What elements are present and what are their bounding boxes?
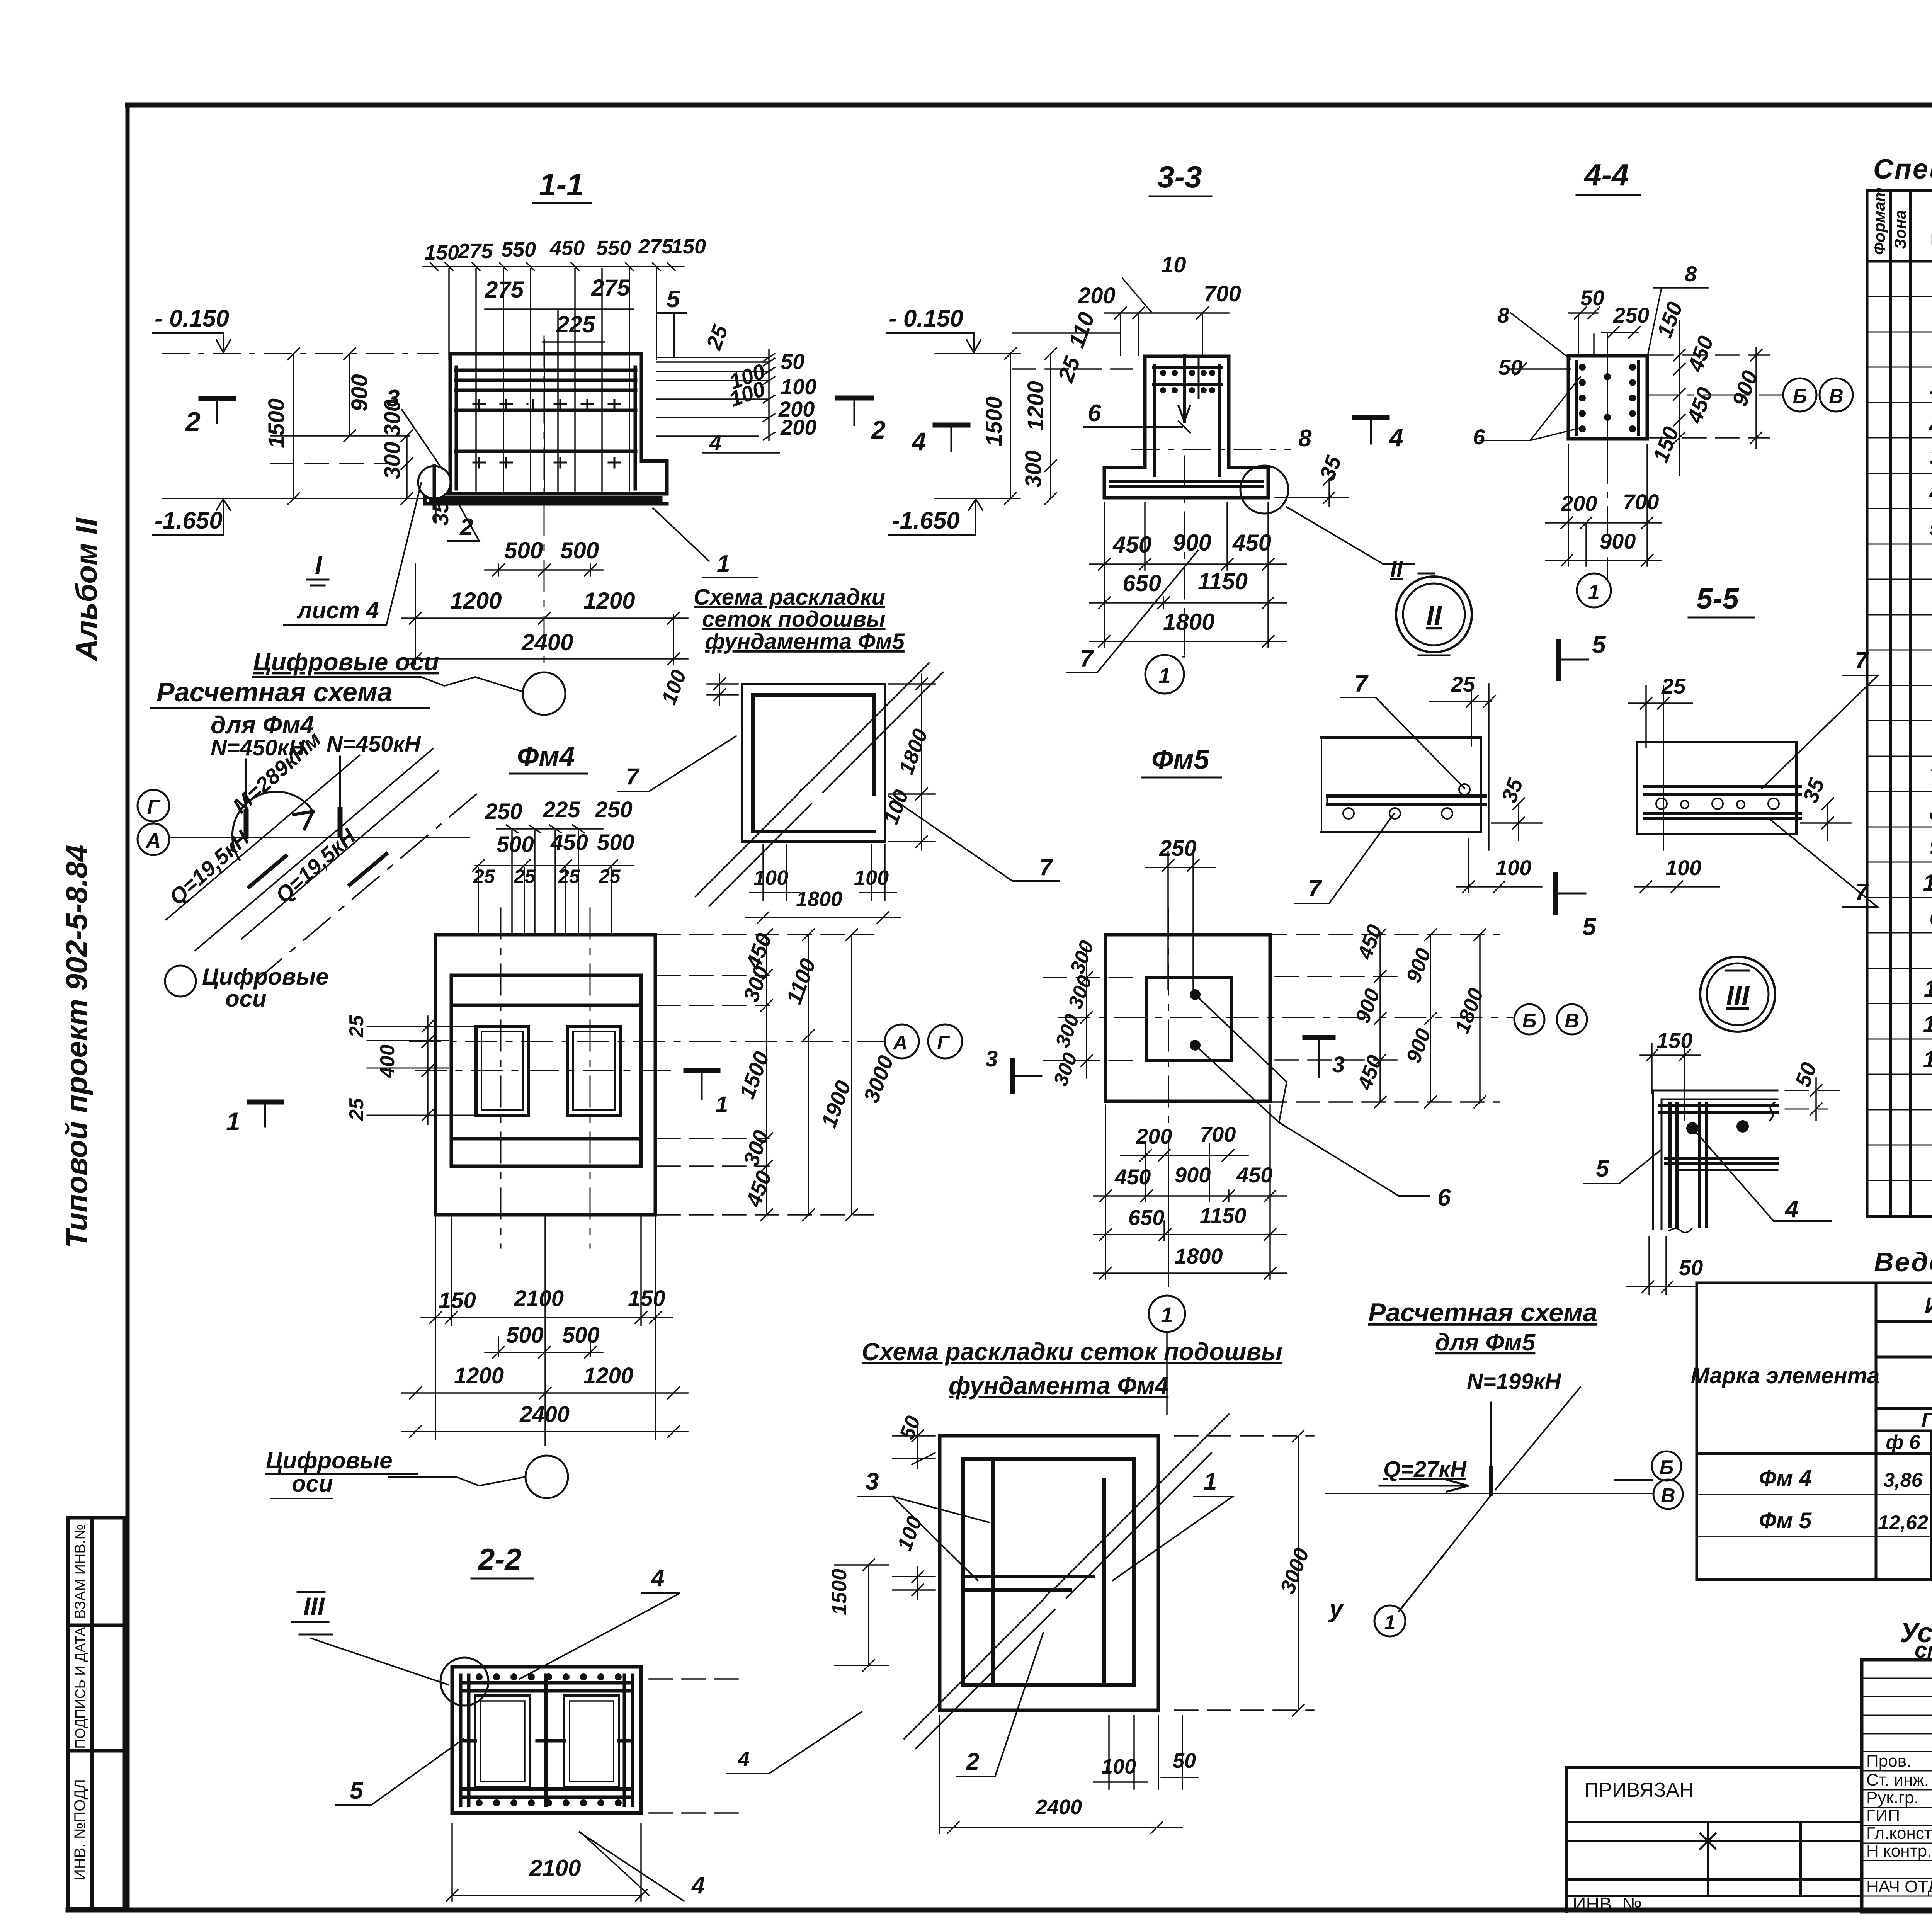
T1 marker bbox=[686, 1068, 718, 1073]
svg-text:4: 4 bbox=[911, 427, 926, 456]
svg-text:8: 8 bbox=[1685, 262, 1697, 286]
dims above bbox=[1473, 262, 1762, 466]
svg-text:1: 1 bbox=[1929, 373, 1932, 399]
svg-text:700: 700 bbox=[1204, 281, 1241, 306]
body bbox=[1568, 356, 1647, 439]
svg-text:4: 4 bbox=[1784, 1196, 1798, 1223]
svg-text:700: 700 bbox=[1200, 1122, 1236, 1146]
bottom dims bbox=[1114, 1122, 1272, 1268]
svg-text:6: 6 bbox=[1088, 400, 1101, 427]
break squiggles bbox=[1770, 1102, 1775, 1121]
svg-text:5-5: 5-5 bbox=[1696, 582, 1740, 615]
svg-text:Гл.конст.: Гл.конст. bbox=[1866, 1824, 1932, 1843]
svg-text:Цифровые оси: Цифровые оси bbox=[253, 648, 439, 676]
podkolonnik rect bbox=[451, 975, 641, 1166]
level line top bbox=[162, 353, 439, 354]
svg-text:-1.650: -1.650 bbox=[892, 507, 960, 534]
svg-text:500: 500 bbox=[506, 1323, 544, 1348]
svg-text:1500: 1500 bbox=[264, 398, 289, 448]
svg-text:лист 4: лист 4 bbox=[296, 597, 379, 623]
section 4-4 bbox=[1473, 262, 1853, 607]
axis circle 1 below bbox=[1149, 1296, 1185, 1332]
svg-text:50: 50 bbox=[1580, 286, 1604, 310]
marker 5 top bbox=[1556, 641, 1561, 678]
II detail circle on flange right bbox=[1240, 466, 1288, 514]
svg-text:А: А bbox=[145, 829, 161, 852]
svg-text:ГИП: ГИП bbox=[1866, 1806, 1900, 1825]
inner openings bbox=[475, 1696, 530, 1787]
svg-text:1200: 1200 bbox=[583, 588, 635, 614]
svg-text:12,62: 12,62 bbox=[1878, 1512, 1928, 1534]
svg-text:1: 1 bbox=[1204, 1468, 1217, 1495]
svg-text:150: 150 bbox=[628, 1286, 665, 1311]
svg-text:900: 900 bbox=[1600, 529, 1636, 553]
axis circle 1 bbox=[1145, 655, 1184, 694]
section 3-3 bbox=[887, 160, 1414, 694]
svg-text:100: 100 bbox=[1665, 855, 1701, 880]
section 4-4 title block area (between x4050..4750) bbox=[1577, 158, 1640, 195]
svg-text:500: 500 bbox=[504, 537, 543, 563]
center axis bbox=[1184, 456, 1185, 657]
svg-text:Фм 4: Фм 4 bbox=[1759, 1466, 1812, 1491]
svg-text:у: у bbox=[1328, 1594, 1345, 1622]
svg-text:150: 150 bbox=[671, 235, 706, 258]
svg-text:III: III bbox=[1726, 981, 1750, 1012]
svg-text:550: 550 bbox=[501, 238, 536, 261]
svg-text:Б: Б bbox=[1522, 1010, 1537, 1032]
left small dims bbox=[345, 1015, 399, 1121]
svg-text:1800: 1800 bbox=[796, 888, 842, 911]
svg-text:7: 7 bbox=[1929, 764, 1932, 789]
svg-text:50: 50 bbox=[1173, 1749, 1196, 1772]
inner square bbox=[1146, 978, 1231, 1060]
svg-text:9: 9 bbox=[1929, 834, 1932, 860]
svg-text:Формат: Формат bbox=[1870, 187, 1888, 255]
top dim chain texts bbox=[424, 235, 706, 337]
foundation body section bbox=[425, 354, 667, 504]
svg-text:10: 10 bbox=[1161, 252, 1186, 277]
svg-text:4: 4 bbox=[1929, 480, 1932, 505]
bottom dims bbox=[1561, 490, 1659, 553]
T3 marker bbox=[1305, 1035, 1333, 1040]
axes bbox=[410, 908, 885, 1248]
top dims bbox=[1053, 252, 1241, 386]
svg-text:25: 25 bbox=[473, 866, 495, 887]
axes bbox=[1059, 908, 1513, 1132]
svg-text:5: 5 bbox=[1929, 515, 1932, 541]
detail 5-5 (slab edge, right) bbox=[1629, 647, 1878, 907]
section 1-1 bbox=[153, 167, 816, 715]
svg-text:ВЗАМ ИНВ.№: ВЗАМ ИНВ.№ bbox=[72, 1524, 88, 1619]
svg-text:1: 1 bbox=[1588, 580, 1600, 604]
privyazan box bbox=[1566, 1767, 1862, 1912]
svg-text:1200: 1200 bbox=[454, 1363, 504, 1388]
svg-text:Зона: Зона bbox=[1891, 210, 1909, 249]
bottom dims bbox=[1112, 530, 1271, 635]
svg-text:сеток подошвы: сеток подошвы bbox=[702, 607, 886, 632]
moment arc bbox=[232, 792, 313, 860]
inner mesh panels thick bbox=[963, 1459, 1134, 1685]
svg-text:Ст. инж.: Ст. инж. bbox=[1866, 1770, 1929, 1789]
svg-text:3: 3 bbox=[866, 1468, 879, 1495]
svg-text:Пров.: Пров. bbox=[1866, 1752, 1911, 1770]
svg-text:100: 100 bbox=[753, 866, 788, 889]
svg-text:10: 10 bbox=[1923, 870, 1932, 896]
svg-text:225: 225 bbox=[556, 311, 596, 337]
anchor dots bbox=[1190, 989, 1201, 1000]
svg-text:250: 250 bbox=[595, 797, 633, 822]
svg-text:А: А bbox=[892, 1032, 908, 1054]
svg-text:I: I bbox=[315, 551, 323, 579]
svg-text:3,86: 3,86 bbox=[1883, 1469, 1923, 1492]
rebar columns bbox=[1575, 361, 1578, 435]
svg-text:Изделия арматурные: Изделия арматурные bbox=[1925, 1293, 1932, 1318]
svg-text:6: 6 bbox=[1437, 1184, 1451, 1211]
svg-text:НАЧ ОТД.: НАЧ ОТД. bbox=[1866, 1877, 1932, 1896]
svg-text:150: 150 bbox=[439, 1288, 476, 1313]
svg-text:500: 500 bbox=[562, 1323, 600, 1348]
corner body bbox=[1653, 1090, 1777, 1229]
specification table bbox=[1867, 187, 1932, 1216]
diagonals bbox=[166, 749, 481, 981]
svg-text:1800: 1800 bbox=[1175, 1244, 1223, 1268]
top dims bbox=[473, 797, 634, 887]
svg-text:650: 650 bbox=[1128, 1205, 1164, 1230]
left stamp column boxes bbox=[68, 1518, 124, 1909]
svg-text:1200: 1200 bbox=[583, 1363, 633, 1388]
diagonal break lines bbox=[696, 663, 929, 896]
svg-text:100: 100 bbox=[1495, 855, 1531, 880]
svg-text:Г: Г bbox=[937, 1032, 950, 1054]
circle on corner bbox=[440, 1658, 488, 1706]
svg-text:ПРИВЯЗАН: ПРИВЯЗАН bbox=[1584, 1779, 1694, 1801]
svg-text:250: 250 bbox=[1613, 303, 1649, 327]
marker T2 (right of section 1-1) bbox=[838, 396, 871, 401]
anchor openings bbox=[476, 1026, 529, 1115]
svg-text:ПОДПИСЬ И ДАТА: ПОДПИСЬ И ДАТА bbox=[72, 1627, 88, 1748]
svg-text:225: 225 bbox=[543, 797, 581, 822]
svg-text:Б: Б bbox=[1793, 385, 1807, 408]
svg-text:200: 200 bbox=[1078, 283, 1116, 308]
stamp rotated labels bbox=[71, 1524, 88, 1880]
svg-text:В: В bbox=[1661, 1485, 1675, 1507]
svg-text:900: 900 bbox=[1175, 1163, 1211, 1187]
svg-text:Фм5: Фм5 bbox=[1151, 744, 1209, 775]
svg-text:100: 100 bbox=[1101, 1755, 1136, 1778]
Б В circles bbox=[1514, 1004, 1544, 1034]
у axis letter bbox=[1166, 1333, 1168, 1414]
svg-text:В: В bbox=[1829, 385, 1844, 408]
left dims bbox=[1005, 348, 1056, 504]
body: T-shaped foundation bbox=[1104, 356, 1268, 498]
svg-text:2400: 2400 bbox=[1035, 1796, 1082, 1819]
svg-text:- 0.150: - 0.150 bbox=[889, 305, 963, 332]
расчетная схема для Фм4 bbox=[138, 677, 481, 1012]
diagonal bbox=[904, 1414, 1229, 1739]
svg-text:400: 400 bbox=[376, 1044, 399, 1078]
svg-text:1200: 1200 bbox=[450, 588, 502, 614]
svg-text:3: 3 bbox=[386, 385, 400, 412]
svg-text:для Фм4: для Фм4 bbox=[211, 711, 314, 739]
axis to Б В bbox=[1647, 395, 1783, 396]
Фм5 plan bbox=[1043, 744, 1587, 1332]
svg-text:2: 2 bbox=[1929, 409, 1932, 435]
svg-text:Типовой проект 902-5-8.84: Типовой проект 902-5-8.84 bbox=[60, 845, 94, 1248]
svg-text:200: 200 bbox=[1561, 491, 1597, 515]
svg-text:2400: 2400 bbox=[519, 1402, 570, 1427]
svg-text:6: 6 bbox=[1473, 425, 1485, 449]
svg-text:1: 1 bbox=[1384, 1611, 1396, 1634]
force arrows bbox=[245, 759, 247, 837]
svg-text:450: 450 bbox=[1236, 1163, 1272, 1187]
bottom dims bbox=[439, 1286, 665, 1427]
svg-text:Марка элемента: Марка элемента bbox=[1691, 1363, 1880, 1388]
svg-text:700: 700 bbox=[1623, 490, 1659, 514]
svg-text:200: 200 bbox=[780, 415, 816, 439]
II double circle bbox=[1396, 577, 1472, 652]
svg-text:150: 150 bbox=[424, 241, 459, 264]
marker 1T bottom left bbox=[249, 1100, 281, 1105]
svg-text:12: 12 bbox=[1923, 1011, 1932, 1037]
svg-text:Альбом II: Альбом II bbox=[69, 517, 103, 662]
svg-text:3: 3 bbox=[1929, 444, 1932, 470]
dims bbox=[657, 667, 932, 911]
axis circles Б and В left of vedomost bbox=[1615, 1479, 1652, 1481]
marker T4 (right of 3-3) bbox=[1354, 415, 1387, 420]
svg-text:оси: оси bbox=[225, 986, 267, 1012]
svg-text:ИНВ. №ПОДЛ: ИНВ. №ПОДЛ bbox=[71, 1779, 88, 1880]
svg-text:2100: 2100 bbox=[514, 1286, 564, 1311]
svg-text:-1.650: -1.650 bbox=[155, 507, 223, 534]
rebar in body bbox=[431, 367, 661, 501]
svg-text:II: II bbox=[1426, 600, 1442, 631]
level line bottom bbox=[162, 498, 439, 499]
svg-text:4: 4 bbox=[691, 1872, 705, 1899]
svg-text:25: 25 bbox=[599, 866, 621, 887]
svg-text:5: 5 bbox=[667, 286, 680, 313]
svg-text:1500: 1500 bbox=[981, 396, 1007, 446]
rebar dots rows bbox=[476, 1673, 622, 1806]
svg-text:Расчетная схема: Расчетная схема bbox=[156, 677, 393, 707]
right dim chains bbox=[657, 929, 873, 1221]
extension verticals bbox=[448, 269, 450, 359]
расчетная схема для Фм5 bbox=[1325, 1298, 1652, 1636]
svg-text:450: 450 bbox=[549, 236, 585, 260]
svg-text:900: 900 bbox=[1173, 530, 1211, 556]
detail II (slab edge, left) bbox=[1294, 670, 1542, 903]
svg-text:3-3: 3-3 bbox=[1157, 160, 1202, 194]
leader to II callout bbox=[1287, 507, 1414, 564]
svg-text:250: 250 bbox=[485, 799, 522, 824]
marker 2T left bbox=[201, 396, 234, 401]
svg-text:25: 25 bbox=[1661, 674, 1686, 698]
svg-text:2: 2 bbox=[185, 406, 201, 437]
svg-text:550: 550 bbox=[596, 236, 631, 260]
svg-text:1: 1 bbox=[716, 1092, 728, 1117]
цифровые оси 3 + circle bbox=[266, 1447, 393, 1497]
svg-text:Н контр.: Н контр. bbox=[1866, 1842, 1932, 1861]
svg-text:11: 11 bbox=[1924, 976, 1932, 1002]
svg-text:ф 6: ф 6 bbox=[1886, 1431, 1920, 1454]
svg-text:4: 4 bbox=[738, 1747, 750, 1770]
svg-text:Q=27кН: Q=27кН bbox=[1383, 1457, 1467, 1482]
svg-text:275: 275 bbox=[457, 240, 493, 263]
hatch mesh right of body bbox=[657, 350, 779, 453]
svg-text:4: 4 bbox=[650, 1565, 664, 1592]
svg-text:450: 450 bbox=[1232, 530, 1271, 556]
svg-text:N=450кН: N=450кН bbox=[327, 731, 421, 757]
svg-text:7: 7 bbox=[1039, 854, 1053, 880]
svg-text:7: 7 bbox=[1354, 670, 1369, 697]
svg-text:II: II bbox=[1390, 556, 1403, 582]
svg-text:25: 25 bbox=[345, 1015, 368, 1038]
svg-text:50: 50 bbox=[781, 349, 804, 374]
svg-text:500: 500 bbox=[560, 537, 599, 563]
svg-text:5: 5 bbox=[1596, 1155, 1610, 1182]
svg-text:- 0.150: - 0.150 bbox=[155, 305, 229, 332]
svg-text:Фм4: Фм4 bbox=[517, 741, 575, 772]
svg-text:8: 8 bbox=[1929, 799, 1932, 825]
svg-text:50: 50 bbox=[1498, 355, 1522, 379]
svg-text:8: 8 bbox=[1298, 425, 1312, 452]
svg-text:500: 500 bbox=[497, 832, 534, 857]
схема раскладки сеток подошвы фундамента Фм4 (bottom square) bbox=[726, 1333, 1314, 1833]
svg-text:N=199кН: N=199кН bbox=[1467, 1369, 1561, 1394]
svg-text:6: 6 bbox=[1929, 905, 1932, 931]
svg-text:Цифровые: Цифровые bbox=[266, 1447, 393, 1473]
svg-text:Спецификация монолитных фунда: Спецификация монолитных фундаментов Фм4;… bbox=[1873, 154, 1932, 185]
svg-text:25: 25 bbox=[345, 1098, 368, 1121]
svg-text:2-2: 2-2 bbox=[477, 1542, 522, 1576]
цифровые оси 2 + circle bbox=[165, 966, 196, 997]
svg-text:4: 4 bbox=[1388, 423, 1403, 452]
outer slab rect bbox=[435, 935, 655, 1215]
spec table body text bbox=[1923, 304, 1932, 1143]
svg-text:3: 3 bbox=[985, 1046, 998, 1071]
svg-text:150: 150 bbox=[1656, 1028, 1692, 1053]
svg-text:ИНВ. №: ИНВ. № bbox=[1573, 1894, 1642, 1915]
svg-text:3: 3 bbox=[1332, 1052, 1345, 1077]
svg-text:13: 13 bbox=[1923, 1046, 1932, 1072]
svg-text:50: 50 bbox=[1679, 1255, 1703, 1280]
svg-text:2100: 2100 bbox=[529, 1855, 581, 1881]
dims bbox=[738, 1413, 1313, 1819]
dim lines top bbox=[423, 263, 684, 491]
section 2-2 (bottom left) bbox=[292, 1542, 742, 1901]
svg-text:фундамента Фм5: фундамента Фм5 bbox=[705, 629, 905, 654]
svg-text:Поз.: Поз. bbox=[1928, 208, 1932, 247]
svg-text:5: 5 bbox=[350, 1777, 364, 1804]
svg-text:2: 2 bbox=[966, 1748, 979, 1775]
svg-text:300: 300 bbox=[380, 442, 405, 479]
rebar frame inside bbox=[461, 1675, 633, 1805]
marker 5 bottom bbox=[1553, 875, 1558, 912]
Фм4 plan bbox=[266, 741, 1041, 1498]
svg-text:100: 100 bbox=[781, 374, 816, 399]
svg-text:Ведомость расхода стали на: Ведомость расхода стали на элемент, кг bbox=[1874, 1247, 1932, 1277]
svg-text:1: 1 bbox=[226, 1107, 240, 1136]
outer square bbox=[1105, 935, 1270, 1101]
svg-text:500: 500 bbox=[597, 830, 634, 855]
svg-text:200: 200 bbox=[1136, 1124, 1172, 1148]
svg-text:8: 8 bbox=[1497, 303, 1510, 327]
marker 4T (left of section 3-3) bbox=[935, 423, 968, 428]
circles Г А bbox=[138, 790, 169, 821]
3T marker right bbox=[1010, 1061, 1015, 1092]
bottom dims bbox=[450, 537, 635, 655]
vertical dims left bbox=[270, 348, 436, 522]
svg-text:Расчетная схема: Расчетная схема bbox=[1368, 1298, 1597, 1327]
left margin rotated titles bbox=[60, 517, 103, 1248]
svg-text:25: 25 bbox=[558, 866, 580, 887]
svg-text:Фм 5: Фм 5 bbox=[1759, 1508, 1812, 1533]
svg-text:7: 7 bbox=[626, 764, 640, 789]
title block bbox=[1566, 1660, 1932, 1932]
body rect bbox=[452, 1667, 641, 1813]
svg-text:300: 300 bbox=[1021, 450, 1046, 488]
axis circle below bbox=[523, 672, 565, 715]
svg-text:1150: 1150 bbox=[1198, 568, 1248, 594]
svg-text:ГОСТ 5781-82: ГОСТ 5781-82 bbox=[1922, 1409, 1932, 1431]
svg-text:1800: 1800 bbox=[1163, 609, 1214, 635]
right side lines bbox=[649, 1678, 742, 1680]
outer square bbox=[940, 1436, 1158, 1710]
svg-text:1150: 1150 bbox=[1200, 1203, 1246, 1228]
svg-text:7: 7 bbox=[1080, 645, 1094, 672]
svg-text:1-1: 1-1 bbox=[539, 167, 584, 202]
svg-text:1: 1 bbox=[717, 551, 730, 577]
svg-text:450: 450 bbox=[1112, 532, 1151, 558]
svg-text:Схема раскладки сеток подошвы: Схема раскладки сеток подошвы bbox=[862, 1338, 1282, 1366]
svg-text:7: 7 bbox=[1308, 875, 1322, 902]
svg-text:4-4: 4-4 bbox=[1583, 158, 1629, 192]
left dims 300 300 bbox=[1049, 938, 1099, 1089]
svg-text:900: 900 bbox=[347, 374, 372, 412]
svg-text:5: 5 bbox=[1592, 631, 1606, 658]
svg-text:650: 650 bbox=[1122, 570, 1161, 596]
svg-text:1500: 1500 bbox=[828, 1569, 851, 1615]
svg-text:275: 275 bbox=[485, 277, 524, 303]
vedomost table bbox=[1615, 1283, 1932, 1580]
detail circle on slab left bbox=[418, 466, 451, 498]
rebar bbox=[1111, 365, 1263, 486]
svg-text:фундамента Фм4: фундамента Фм4 bbox=[949, 1372, 1168, 1400]
svg-text:275: 275 bbox=[591, 275, 631, 301]
svg-text:В: В bbox=[1565, 1010, 1579, 1032]
svg-text:2: 2 bbox=[871, 415, 886, 444]
svg-text:1: 1 bbox=[1161, 1303, 1173, 1327]
svg-text:275: 275 bbox=[638, 235, 673, 258]
svg-text:1200: 1200 bbox=[1023, 381, 1048, 431]
rebar band bbox=[1327, 794, 1486, 798]
5-5 markers and title bbox=[1556, 582, 1754, 940]
svg-text:Схема раскладки: Схема раскладки bbox=[694, 585, 885, 610]
svg-text:1: 1 bbox=[1158, 663, 1170, 688]
svg-text:2400: 2400 bbox=[521, 629, 573, 655]
svg-text:5: 5 bbox=[1582, 913, 1597, 940]
circles А Г bbox=[885, 1024, 919, 1058]
axis А horizontal bbox=[170, 837, 469, 838]
svg-text:4: 4 bbox=[709, 430, 721, 455]
svg-text:для Фм5: для Фм5 bbox=[1435, 1329, 1536, 1356]
svg-text:250: 250 bbox=[1159, 836, 1197, 861]
III detail (corner section) bbox=[1584, 957, 1839, 1294]
svg-text:III: III bbox=[303, 1592, 325, 1621]
svg-text:Г: Г bbox=[147, 796, 161, 819]
svg-text:Рук.гр.: Рук.гр. bbox=[1866, 1788, 1919, 1807]
схема раскладки сеток подошвы фундамента Фм5 (small square) bbox=[618, 585, 1059, 923]
svg-text:Б: Б bbox=[1660, 1456, 1674, 1479]
